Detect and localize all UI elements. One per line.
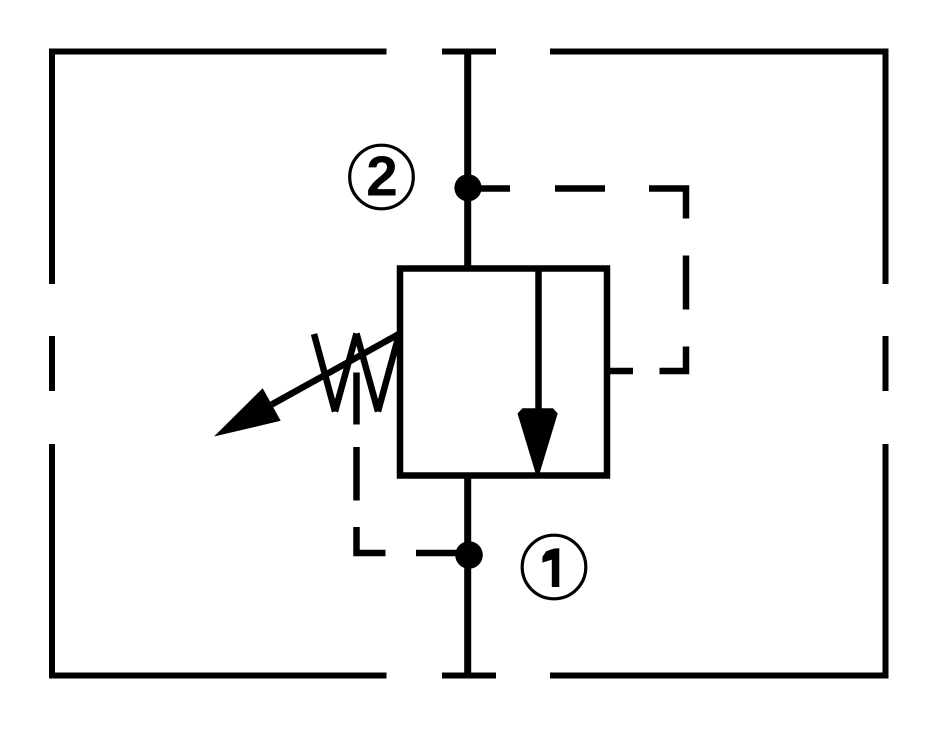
svg-text:2: 2 <box>366 145 398 209</box>
